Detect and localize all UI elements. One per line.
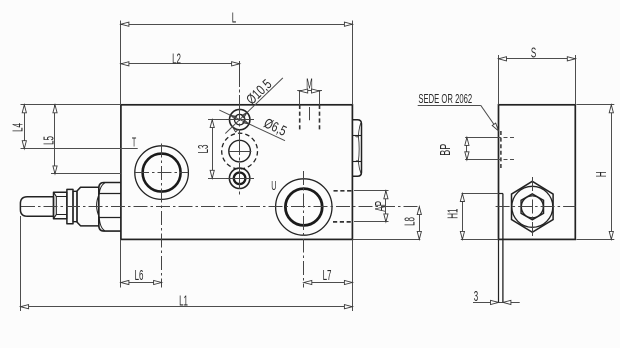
svg-text:L7: L7	[323, 268, 332, 284]
svg-text:H: H	[593, 171, 609, 177]
svg-text:S: S	[531, 45, 536, 61]
svg-text:M: M	[306, 76, 313, 92]
svg-text:U: U	[271, 180, 276, 194]
svg-text:L2: L2	[172, 51, 181, 67]
svg-text:L: L	[232, 10, 237, 26]
svg-text:L8: L8	[402, 217, 418, 226]
svg-text:T: T	[132, 137, 137, 151]
svg-text:AP: AP	[373, 201, 389, 212]
svg-text:3: 3	[474, 289, 478, 305]
svg-text:L3: L3	[196, 145, 212, 154]
svg-text:H1: H1	[445, 209, 461, 219]
svg-text:L1: L1	[179, 293, 188, 309]
svg-text:BP: BP	[437, 144, 454, 156]
svg-text:L6: L6	[135, 268, 144, 284]
svg-text:SEDE OR 2062: SEDE OR 2062	[418, 92, 472, 107]
svg-text:L4: L4	[10, 123, 26, 132]
svg-text:L5: L5	[41, 136, 57, 145]
